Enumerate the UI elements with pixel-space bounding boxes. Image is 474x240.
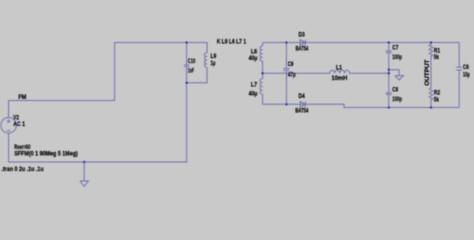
svg-text:5k: 5k bbox=[434, 54, 440, 61]
svg-text:10µ: 10µ bbox=[463, 72, 470, 79]
svg-text:L7: L7 bbox=[251, 81, 258, 88]
svg-text:C9: C9 bbox=[288, 61, 294, 68]
svg-text:L1: L1 bbox=[336, 65, 342, 72]
svg-text:D4: D4 bbox=[299, 93, 306, 100]
svg-text:BAT54: BAT54 bbox=[296, 46, 309, 53]
svg-text:1nF: 1nF bbox=[188, 68, 194, 75]
svg-text:40µ: 40µ bbox=[249, 55, 258, 62]
svg-text:47p: 47p bbox=[288, 71, 296, 78]
svg-text:SFFM(0 1 90Meg 5 1Meg): SFFM(0 1 90Meg 5 1Meg) bbox=[14, 150, 78, 157]
svg-text:D3: D3 bbox=[299, 31, 306, 38]
svg-text:OUTPUT: OUTPUT bbox=[424, 59, 431, 85]
svg-text:5k: 5k bbox=[434, 96, 440, 103]
svg-text:.tran 0 2u .1u .1u: .tran 0 2u .1u .1u bbox=[2, 166, 44, 173]
svg-text:BAT54: BAT54 bbox=[295, 107, 309, 114]
svg-text:1µ: 1µ bbox=[211, 60, 216, 67]
svg-text:40µ: 40µ bbox=[249, 91, 258, 98]
svg-text:100p: 100p bbox=[392, 54, 402, 61]
svg-text:C8: C8 bbox=[392, 87, 398, 94]
svg-text:C6: C6 bbox=[463, 64, 469, 71]
svg-text:K L9 L6 L7 1: K L9 L6 L7 1 bbox=[217, 38, 247, 45]
svg-text:FM: FM bbox=[18, 94, 26, 101]
svg-text:R2: R2 bbox=[434, 89, 441, 96]
svg-text:10mH: 10mH bbox=[332, 75, 348, 82]
svg-text:C10: C10 bbox=[188, 58, 196, 65]
svg-text:C7: C7 bbox=[392, 45, 398, 52]
svg-text:100p: 100p bbox=[392, 96, 402, 103]
svg-text:AC 1: AC 1 bbox=[13, 121, 25, 128]
